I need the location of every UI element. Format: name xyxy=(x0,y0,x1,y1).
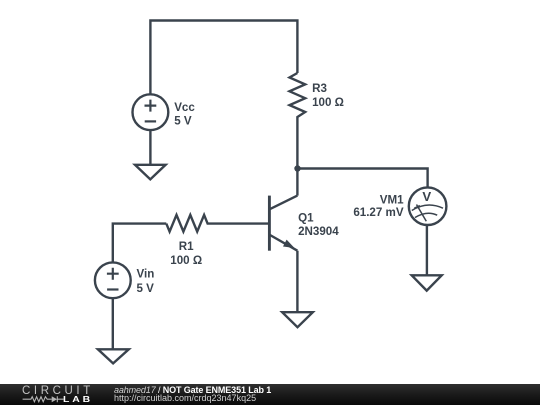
wire Vin to ground xyxy=(112,298,114,349)
VM1 meter scale arcs xyxy=(412,205,443,218)
svg-text:V: V xyxy=(422,189,431,204)
svg-text:Vcc: Vcc xyxy=(174,101,195,114)
svg-text:2N3904: 2N3904 xyxy=(298,225,339,238)
resistor R1 xyxy=(166,215,269,232)
svg-text:5 V: 5 V xyxy=(174,115,192,128)
CircuitLab logo text LAB xyxy=(63,397,93,403)
svg-text:61.27 mV: 61.27 mV xyxy=(353,206,404,219)
ground (below Vin) xyxy=(98,349,129,363)
wire Vin top xyxy=(113,224,167,263)
resistor R3 xyxy=(290,73,306,169)
ground (below emitter) xyxy=(282,312,313,327)
svg-text:R1: R1 xyxy=(179,240,194,253)
svg-text:100 Ω: 100 Ω xyxy=(312,96,344,109)
ground (below Vcc) xyxy=(135,165,166,180)
VM1 needle xyxy=(414,205,426,222)
transistor Q1 collector diagonal xyxy=(270,196,297,210)
wire VM1 to ground xyxy=(426,225,428,275)
Vin minus sign xyxy=(107,288,118,290)
svg-text:Vin: Vin xyxy=(137,267,155,280)
ground (below VM1) xyxy=(412,275,442,290)
wire top loop Vcc to R3 xyxy=(150,21,297,95)
junction node (collector net) xyxy=(294,165,300,171)
wire junction down to transistor collector xyxy=(296,169,298,196)
voltage source Vcc xyxy=(133,94,169,130)
svg-text:R3: R3 xyxy=(312,82,327,95)
Vin plus sign xyxy=(107,268,119,280)
transistor Q1 base bar xyxy=(268,196,271,251)
wire emitter to ground xyxy=(296,251,298,313)
voltage source Vin xyxy=(95,262,131,298)
CircuitLab logo text CIRCUIT xyxy=(22,387,94,396)
voltmeter VM1 xyxy=(409,187,447,225)
footer bar xyxy=(0,384,540,405)
Vcc plus sign xyxy=(145,100,157,112)
transistor Q1 emitter diagonal xyxy=(270,235,297,251)
CircuitLab logo squiggle (resistor + diode) xyxy=(0,384,110,405)
svg-text:100 Ω: 100 Ω xyxy=(170,254,202,267)
wire junction to voltmeter xyxy=(298,169,428,188)
svg-text:VM1: VM1 xyxy=(380,193,404,206)
wire Vcc to ground xyxy=(149,130,151,165)
footer line 2 xyxy=(114,393,256,403)
transistor Q1 emitter arrow xyxy=(283,240,295,248)
footer line 1 xyxy=(114,385,271,395)
Vcc minus sign xyxy=(145,120,156,122)
svg-text:5 V: 5 V xyxy=(137,282,155,295)
svg-text:Q1: Q1 xyxy=(298,211,314,224)
